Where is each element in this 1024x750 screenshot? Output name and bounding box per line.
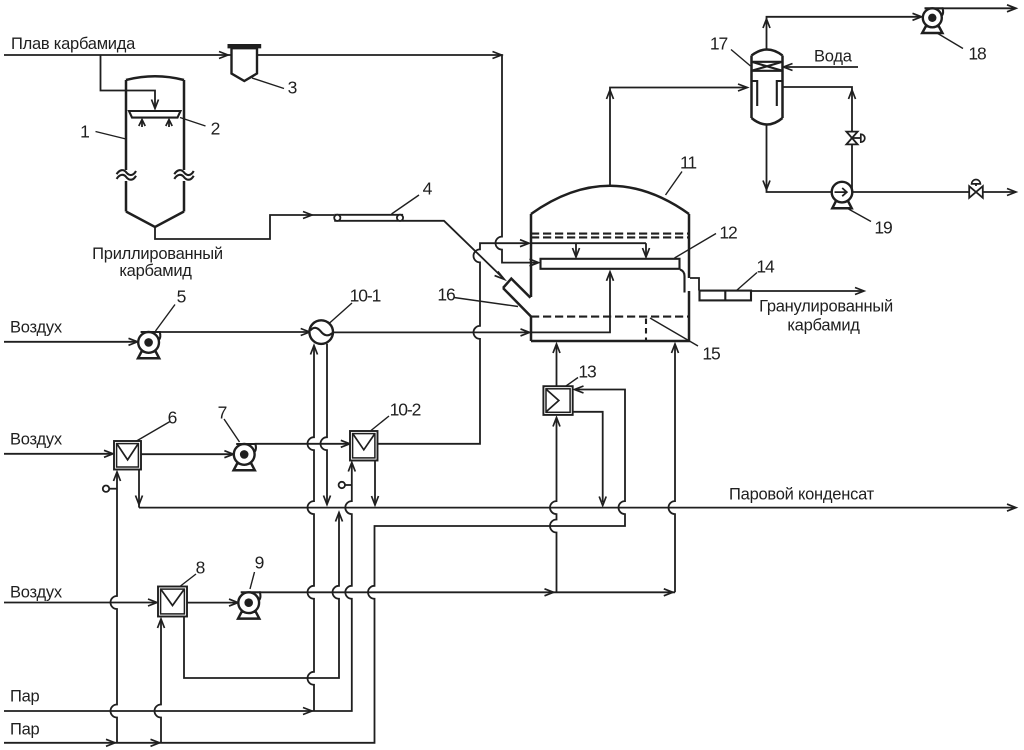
heater 8 (steam air heater) (158, 587, 187, 617)
svg-text:17: 17 (710, 34, 728, 54)
svg-text:Вода: Вода (814, 48, 853, 66)
pump 19 (circulation pump) (832, 182, 853, 208)
callout 14 (737, 257, 775, 291)
wire: steam riser to heater 6 (111, 472, 121, 743)
svg-text:4: 4 (423, 179, 433, 199)
internal overflow hook in granulator (680, 270, 685, 293)
tray 2 inside prilling tower with spray arrows (129, 111, 181, 127)
fan 9 (238, 592, 260, 618)
svg-text:19: 19 (874, 218, 892, 238)
svg-text:15: 15 (702, 344, 720, 364)
wire: distributor inside granulator with two down arrows (531, 243, 650, 257)
callout 5 (156, 287, 186, 332)
fan 5 (138, 332, 160, 358)
callout 9 (250, 553, 264, 590)
wire: fan 18 discharge (942, 5, 1016, 12)
wire: steam riser to 10-2 from Пар line (4, 463, 355, 715)
granulator lower dashed bed level (531, 316, 689, 318)
wire: Пар line 2 to heaters 6, 8 and 13 (4, 386, 625, 746)
svg-text:13: 13 (578, 362, 596, 382)
wire: Воздух line 3 to heater 8 (4, 599, 157, 606)
svg-text:10-2: 10-2 (390, 400, 421, 420)
callout 18 (937, 33, 986, 64)
wire: granulator dome offgas to scrubber 17 (607, 84, 748, 186)
wire: pump 19 discharge with valve to battery limit (852, 189, 1016, 196)
svg-text:11: 11 (680, 153, 696, 173)
heater 13 (air heater, square with sigma) (543, 386, 572, 415)
wire: scrubber recirculation return (right side, via valve) (783, 87, 856, 192)
wire: 10-2 condensate drop to header (372, 461, 379, 506)
wire: fluidizing air right riser into granulator bottom (669, 344, 679, 592)
heater 6 (steam air heater) (114, 441, 141, 470)
callout 4 (392, 179, 433, 215)
wire: steam riser to 10-1 from Пар line (308, 346, 318, 712)
svg-text:карбамид: карбамид (119, 262, 192, 280)
svg-text:Паровой конденсат: Паровой конденсат (729, 486, 875, 504)
callout 3 (252, 78, 297, 98)
wire: heater 6 condensate drain (136, 470, 143, 508)
wire: melt feed "Плав карбамида" main run to granulator tray (4, 52, 539, 267)
vent cock at heater 6 steam line (103, 486, 117, 492)
wire: granulated product arrow "Гранулированный карбамид" (751, 288, 864, 295)
svg-text:Гранулированный: Гранулированный (759, 298, 893, 316)
wire: heater 8 to fan 9 (187, 599, 238, 606)
callout 6 (137, 408, 177, 442)
granulator upper double dashed level (531, 234, 689, 238)
svg-text:Воздух: Воздух (10, 319, 63, 337)
dashed partition 15 (645, 319, 647, 342)
callout 19 (849, 209, 892, 238)
heat exchanger 10-2 (square with M) (350, 431, 378, 461)
callout 13 (566, 362, 596, 387)
wire: Воздух line 2 to heater 6 (4, 450, 113, 457)
svg-text:3: 3 (288, 78, 297, 98)
chute 16 (inclined feed duct) (503, 279, 531, 317)
wire: air from 10-1 into granulator and riser to tray 12 (333, 272, 614, 336)
wire: heated air 10-2 to granulator top distributor (378, 240, 530, 444)
svg-text:Приллированный: Приллированный (92, 245, 223, 263)
scrubber 17 shell with packing (752, 50, 783, 125)
callout 12 (675, 223, 737, 259)
discharge box 14 (700, 291, 752, 301)
svg-text:10-1: 10-1 (350, 286, 381, 306)
svg-text:карбамид: карбамид (787, 317, 860, 335)
heat exchanger 10-1 (circle with wave) (309, 320, 333, 344)
wire: melt branch into prilling tower 1 (101, 55, 159, 109)
callout 16 (437, 285, 518, 307)
svg-text:8: 8 (196, 558, 205, 578)
svg-text:Воздух: Воздух (10, 431, 63, 449)
wire: condensate header "Паровой конденсат" (139, 504, 1016, 511)
callout 2 (180, 118, 220, 139)
svg-text:14: 14 (756, 257, 775, 277)
wire: prilling tower outlet to conveyor 4 (155, 212, 334, 240)
fan 7 (234, 444, 256, 470)
callout 17 (710, 34, 751, 67)
svg-text:1: 1 (80, 122, 89, 142)
conveyor 4 (belt) (334, 215, 403, 221)
svg-text:7: 7 (218, 403, 227, 423)
callout 11 (666, 153, 697, 196)
granulator 11 shell (531, 186, 690, 341)
svg-text:5: 5 (177, 287, 186, 307)
callout 8 (181, 558, 205, 587)
vent cock at 10-2 steam line (339, 482, 352, 488)
svg-text:6: 6 (168, 408, 177, 428)
svg-text:18: 18 (968, 44, 986, 64)
wire: fan 7 to 10-2 (255, 440, 350, 447)
wire: heater 6 to fan 7 (141, 451, 233, 458)
wire: scrubber bottoms to pump 19 (763, 125, 832, 193)
wire: granulator discharge duct to box 14 (690, 278, 699, 291)
valve on scrubber recirculation line (846, 132, 864, 145)
wire: conveyor to chute 16 (diagonal) (403, 221, 504, 279)
svg-text:16: 16 (437, 285, 455, 305)
fan 18 (922, 8, 943, 33)
svg-text:9: 9 (255, 553, 264, 573)
svg-text:Пар: Пар (10, 688, 40, 706)
svg-text:Воздух: Воздух (10, 584, 63, 602)
svg-text:Плав карбамида: Плав карбамида (11, 35, 136, 53)
wire: 13 condensate to header (573, 412, 607, 506)
wire: steam riser to heater 8 (155, 619, 165, 743)
funnel 3 (in-line hopper) (228, 46, 262, 81)
callout 15 (650, 318, 720, 364)
valve on pump 19 discharge (969, 179, 983, 197)
wire: fan 9 fluidizing air main (259, 589, 675, 596)
callout 7 (218, 403, 240, 443)
wire: air via heater 13 into granulator bottom (550, 344, 560, 592)
svg-text:Пар: Пар (10, 721, 40, 739)
callout 10-1 (329, 286, 381, 324)
wire: scrubber top offgas to fan 18 (763, 13, 922, 49)
svg-text:12: 12 (719, 223, 737, 243)
wire: fan 5 to 10-1 (159, 329, 310, 336)
callout 1 (80, 122, 126, 142)
wire: heater 8 condensate up to header (184, 513, 343, 679)
svg-text:2: 2 (211, 119, 220, 139)
wire: water inlet "Вода" (784, 64, 859, 71)
wire: 10-1 condensate drop to header (321, 344, 331, 505)
vessel 1: prilling tower (117, 76, 194, 227)
tray 12 (fluid bed plate) (541, 259, 680, 269)
wire: Воздух line 1 to fan 5 (4, 338, 138, 345)
callout 10-2 (371, 400, 421, 431)
